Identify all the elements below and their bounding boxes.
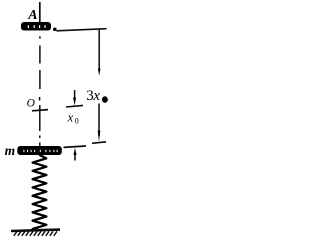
support block A (hatched bar) — [21, 22, 51, 31]
wire dimension 3x_st lower segment — [98, 104, 100, 137]
svg-text:x: x — [67, 110, 74, 124]
mass block m (hatched bar) — [17, 146, 62, 155]
label x0 — [67, 110, 79, 125]
tick at mass level for 3x_st — [92, 142, 106, 144]
svg-text:O: O — [27, 97, 36, 109]
wire x0 upper arrow line — [74, 90, 76, 99]
wire centerline solid top segment — [39, 2, 41, 24]
svg-text:x: x — [92, 88, 100, 104]
arrowhead up of x0 lower arrow — [74, 148, 77, 155]
bottom support hatching — [14, 231, 57, 236]
svg-text:0: 0 — [75, 116, 79, 125]
arrowhead down of 3x_st upper segment — [98, 69, 101, 76]
tick at O equilibrium level — [32, 110, 48, 111]
svg-text:A: A — [27, 8, 37, 23]
tick at O level for x0 — [66, 105, 83, 107]
bottom support ground line — [11, 230, 60, 231]
wire top extension line — [57, 29, 107, 31]
arrowhead down of x0 upper arrow — [73, 98, 76, 106]
svg-text:m: m — [5, 143, 16, 158]
spring — [33, 155, 47, 230]
label 3x_st — [86, 88, 108, 104]
wire x0 lower arrow line — [74, 152, 76, 161]
wire centerline dash-dot axis — [39, 36, 41, 146]
arrowhead down of 3x_st lower segment — [98, 131, 101, 142]
wire mass level extension line — [64, 146, 87, 147]
wire dimension 3x_st upper segment — [98, 29, 100, 70]
node connector dot right of support — [53, 28, 57, 31]
